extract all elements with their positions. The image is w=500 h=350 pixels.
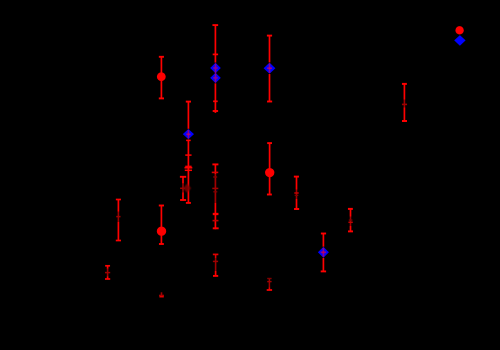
errorbar of D4 xyxy=(267,36,272,102)
errorbar of D5 xyxy=(321,234,326,272)
cross inside D1 xyxy=(186,130,190,139)
dim errorbar x=269.4 xyxy=(267,279,272,291)
blue diamond D3 xyxy=(210,73,221,83)
cross inside D5 xyxy=(321,248,326,257)
legend blue diamond xyxy=(454,35,465,46)
errorbar x=296.5 xyxy=(294,177,299,209)
blue diamond D1 xyxy=(183,129,194,139)
small dim errorbar x=161.5 xyxy=(159,292,164,297)
errorbar x=118 (bright caps, dim centre) xyxy=(116,200,121,241)
errorbar x=404.4 xyxy=(402,84,407,121)
errorbar column x=188.4 through D1 xyxy=(185,102,193,203)
blue diamond D5 xyxy=(318,247,329,258)
errorbar of red point P1 xyxy=(159,57,164,99)
errorbar x=107 xyxy=(105,266,110,279)
errorbar x=350.5 xyxy=(348,209,353,232)
legend red circle xyxy=(455,26,463,34)
blue diamond D4 xyxy=(264,63,276,74)
dark red blob marker xyxy=(183,184,191,193)
errorbar cluster x=215.4 mid xyxy=(212,164,219,229)
red circle P1 xyxy=(157,72,166,81)
cross inside D2 xyxy=(213,64,217,73)
cross inside D3 xyxy=(213,73,217,82)
blue diamond D2 xyxy=(210,63,221,73)
errorbar of red point P2 xyxy=(159,206,164,245)
red circle P3 xyxy=(265,168,274,177)
red circle P2 xyxy=(157,227,166,236)
errorbar column x=215.5 through D2,D3 xyxy=(212,25,218,113)
cross inside D4 xyxy=(267,63,272,73)
errorbar of red point P3 xyxy=(267,143,272,194)
errorbar x=215.6 low xyxy=(213,254,219,276)
errorbar x=183 (dim centre) xyxy=(180,177,186,200)
